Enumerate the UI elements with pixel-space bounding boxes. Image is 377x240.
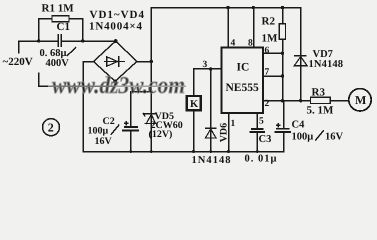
wire: bridge left vertex to ground drop xyxy=(83,62,94,152)
svg-text:C1: C1 xyxy=(57,21,70,33)
resistor R2 xyxy=(279,24,285,39)
bridge rectifier VD1-VD4 xyxy=(94,41,137,81)
svg-text:(12V): (12V) xyxy=(149,129,173,140)
svg-text:VD6: VD6 xyxy=(218,123,229,142)
node: figure number 2 circled xyxy=(43,119,60,136)
svg-text:NE555: NE555 xyxy=(226,82,259,94)
wire: C4 branch from pin2 wire xyxy=(283,101,285,128)
relay K box xyxy=(187,96,201,110)
zener diode VD5 2CW60 xyxy=(143,114,155,116)
op-amp timer IC NE555 box xyxy=(221,48,262,113)
wire: pin 4 line xyxy=(227,8,229,48)
wire: R1/C1 parallel loop xyxy=(39,19,83,41)
capacitor C1 xyxy=(58,35,61,46)
svg-text:3: 3 xyxy=(203,60,208,70)
svg-text:1N4148: 1N4148 xyxy=(309,59,344,70)
plus polarity mark C2 xyxy=(124,121,129,126)
svg-text:6: 6 xyxy=(265,46,270,56)
svg-text:IC: IC xyxy=(237,62,250,74)
wire: bottom ground rail xyxy=(83,151,284,153)
wire: pin 3 to relay K xyxy=(194,69,222,96)
label C1 value xyxy=(67,47,76,56)
resistor R3 xyxy=(311,97,331,103)
wire: relay K to ground rail xyxy=(193,110,195,151)
wire: pin 1 line to ground xyxy=(228,113,230,152)
svg-text:16V: 16V xyxy=(95,136,113,147)
wire: upper mains terminal stub xyxy=(18,41,20,53)
svg-text:100μ: 100μ xyxy=(292,132,314,143)
svg-text:~220V: ~220V xyxy=(3,56,33,68)
wire: VD7 branch vertical xyxy=(300,8,302,101)
svg-text:1M: 1M xyxy=(262,33,279,45)
svg-text:2: 2 xyxy=(265,99,270,109)
svg-text:1N4148: 1N4148 xyxy=(192,155,231,166)
wire: +12V vertical (rail drop through VD5) xyxy=(150,8,152,152)
wire: C2 to ground rail xyxy=(130,131,132,152)
svg-text:100μ: 100μ xyxy=(88,126,109,137)
wire: VD6 branch vertical xyxy=(210,69,212,152)
svg-text:4: 4 xyxy=(231,39,236,49)
wire: lower mains terminal to bridge bottom xyxy=(39,73,115,86)
wire: C4 to ground rail xyxy=(283,133,285,152)
resistor R1 xyxy=(52,16,69,22)
wire: pin 6 stub xyxy=(263,52,283,54)
svg-text:R2: R2 xyxy=(262,16,276,28)
svg-text:400V: 400V xyxy=(46,58,70,69)
svg-text:M: M xyxy=(355,93,366,107)
bridge inner diode symbol xyxy=(105,61,125,63)
svg-text:16V: 16V xyxy=(325,132,344,143)
wire: top +12V rail xyxy=(151,7,300,9)
svg-text:8: 8 xyxy=(248,39,253,49)
capacitor C3 xyxy=(250,129,264,132)
svg-text:0. 01μ: 0. 01μ xyxy=(245,154,277,165)
wire: main top-left wire from 220V to bridge top xyxy=(19,40,116,42)
plus polarity mark C4 xyxy=(276,123,281,128)
svg-text:R3: R3 xyxy=(312,87,326,99)
diode VD7 1N4148 xyxy=(295,55,306,57)
svg-text:R1 1M: R1 1M xyxy=(42,3,75,15)
node: junction dots xyxy=(37,39,40,42)
watermark www.dz3w.com xyxy=(48,73,186,99)
wire: R2 branch vertical xyxy=(282,8,284,101)
motor M xyxy=(349,89,371,111)
wire: C3 to ground rail xyxy=(256,133,258,152)
svg-text:VD1~VD4: VD1~VD4 xyxy=(90,9,145,21)
wire: pin 2 output wire to motor xyxy=(263,100,349,102)
svg-text:C3: C3 xyxy=(259,134,272,145)
svg-text:C4: C4 xyxy=(292,120,306,131)
svg-text:5. 1M: 5. 1M xyxy=(307,105,335,117)
svg-text:K: K xyxy=(190,99,199,110)
svg-text:5: 5 xyxy=(259,117,264,127)
wire: C2 branch xyxy=(131,92,152,127)
wire: pin 5 line xyxy=(256,113,258,128)
capacitor C4 xyxy=(275,129,290,132)
svg-text:7: 7 xyxy=(265,68,270,78)
wire: bridge right vertex to +12V vertical xyxy=(137,61,152,63)
wire: pin 8 line xyxy=(253,8,255,48)
diode VD6 1N4148 xyxy=(206,127,216,129)
capacitor C2 xyxy=(123,127,138,130)
svg-text:1: 1 xyxy=(231,119,236,129)
svg-text:2: 2 xyxy=(48,121,54,135)
svg-text:1N4004×4: 1N4004×4 xyxy=(89,21,143,33)
wire: pin 7 stub xyxy=(263,75,283,77)
